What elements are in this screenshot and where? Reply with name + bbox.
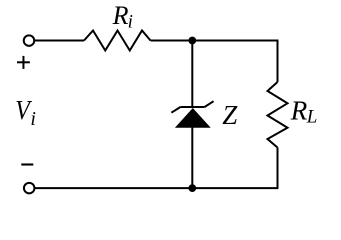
svg-text:i: i: [30, 108, 36, 130]
svg-text:i: i: [128, 11, 133, 32]
svg-text:R: R: [290, 96, 308, 126]
svg-text:L: L: [306, 106, 318, 127]
svg-text:Z: Z: [222, 100, 238, 130]
svg-text:R: R: [112, 1, 129, 30]
